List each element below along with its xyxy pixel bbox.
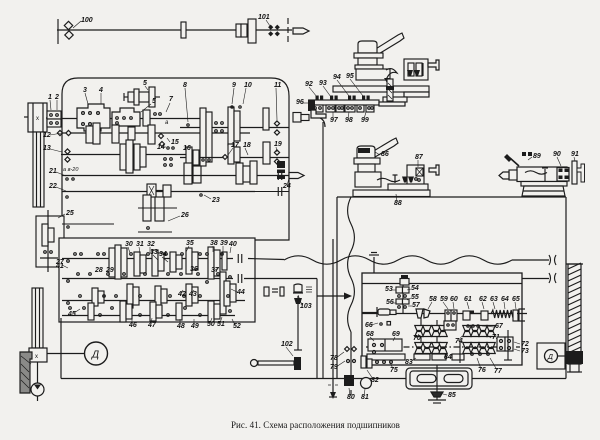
svg-text:57: 57 (412, 302, 421, 309)
worm pair row2 d (479, 343, 496, 354)
item 102 rod (251, 357, 302, 370)
text 18-20 (63, 167, 79, 173)
label 60 (450, 296, 458, 309)
feed gearbox housing (59, 238, 255, 322)
tailstock body (517, 167, 567, 182)
vertical shaft box 25 (36, 216, 64, 267)
svg-text:Д: Д (91, 350, 99, 361)
svg-text:63: 63 (490, 296, 498, 303)
sliding gear feed tall (220, 272, 231, 314)
svg-text:Рис. 41. Схема расположения по: Рис. 41. Схема расположения подшипников (231, 420, 400, 430)
black gear on shaft VI (277, 161, 285, 179)
svg-text:46: 46 (128, 322, 137, 329)
svg-text:51: 51 (217, 321, 225, 328)
label 40 (228, 241, 237, 253)
svg-text:77: 77 (494, 368, 503, 375)
coupling right upper (549, 255, 556, 265)
wire vertical 74 (459, 340, 461, 363)
svg-text:61: 61 (464, 296, 472, 303)
gear cluster feed G (88, 301, 220, 322)
tailstock clamp marks (522, 152, 532, 156)
wire handwheel vertical (436, 365, 438, 392)
worm pair row2 c (463, 343, 480, 354)
label 44 (231, 289, 245, 296)
gear 82 rects (361, 356, 372, 368)
tall gear cluster B (228, 107, 240, 145)
handwheel housing (406, 368, 472, 389)
tool post body lower (357, 146, 375, 158)
rack gear block d (345, 105, 355, 112)
svg-text:30: 30 (125, 241, 133, 248)
label 83 (405, 358, 416, 366)
bevel pair 58 (416, 309, 430, 318)
label 56 (386, 299, 396, 306)
gear cluster feed D (208, 247, 227, 279)
bevel gears upper (407, 70, 420, 76)
svg-text:Д: Д (547, 354, 553, 361)
bearing on top shaft (181, 22, 186, 38)
svg-text:15: 15 (171, 139, 179, 146)
svg-text:85: 85 (448, 392, 456, 399)
label 68 (366, 331, 374, 341)
feed arrow curl upper (384, 69, 397, 83)
label 102 (281, 341, 293, 356)
label 27 (55, 259, 68, 268)
svg-text:19: 19 (274, 141, 282, 148)
handwheel 80-81 (344, 375, 372, 395)
label 75 (390, 362, 398, 374)
apron main shaft (362, 313, 527, 315)
label 31 (136, 241, 144, 253)
label 33 (150, 249, 158, 260)
label 10 (231, 82, 252, 108)
label 88 (394, 194, 402, 207)
universal joint 101 (268, 25, 280, 37)
tailstock lock gears (557, 168, 569, 182)
svg-text:65: 65 (512, 296, 520, 303)
wire motor to pulley (37, 362, 39, 383)
motor pulley circle (31, 383, 44, 401)
label 3 (83, 87, 88, 104)
svg-text:70: 70 (413, 335, 421, 342)
apron rack bar (367, 354, 405, 360)
svg-text:2: 2 (54, 94, 59, 101)
label 65 (512, 296, 520, 309)
svg-text:79: 79 (330, 364, 338, 371)
label 43 (188, 290, 197, 298)
gearbox 68 (368, 339, 402, 354)
label 85 (443, 392, 456, 399)
shaft I spindle (61, 118, 212, 120)
svg-text:86: 86 (381, 151, 389, 158)
label 5a (143, 80, 148, 90)
svg-text:93: 93 (319, 80, 327, 87)
bearing 15 (159, 134, 165, 147)
label 84 (444, 354, 452, 361)
svg-text:88: 88 (394, 200, 402, 207)
label 66 (365, 322, 391, 330)
label 52 (232, 319, 241, 330)
small circles 67 (467, 323, 504, 330)
gear cluster feed B (134, 250, 164, 276)
wire feed rod stub (248, 259, 284, 260)
svg-text:8: 8 (183, 82, 187, 89)
wire pulley to spindle (46, 117, 48, 119)
label 50 (207, 318, 215, 328)
label 80 (347, 388, 355, 401)
wire stop rod (294, 296, 302, 350)
label 37 (211, 267, 220, 274)
motor circle D left (47, 342, 108, 365)
carriage bevel gears (402, 177, 417, 183)
tailstock spring wave (525, 168, 548, 181)
crank handle upper (428, 60, 439, 70)
svg-text:23: 23 (211, 197, 220, 204)
label 26 (168, 212, 189, 221)
cross slide screw block upper (404, 59, 428, 80)
label 4 (98, 87, 103, 104)
svg-text:18: 18 (243, 142, 251, 149)
stop symbol group (264, 287, 284, 296)
gear cluster mid lower (120, 140, 146, 173)
svg-text:97: 97 (330, 117, 339, 124)
gear cluster feed E (92, 284, 167, 308)
svg-text:58: 58 (429, 296, 437, 303)
label 100 (73, 17, 93, 28)
label 51 (217, 317, 225, 328)
label 19 (274, 141, 282, 152)
label 101 (258, 14, 270, 26)
label 14 (157, 144, 174, 151)
wire worm vertical b (436, 320, 438, 360)
crank handle lower (429, 165, 439, 175)
svg-text:32: 32 (147, 241, 155, 248)
svg-text:5: 5 (152, 98, 156, 105)
small gear on spindle end (143, 110, 161, 126)
label 71 (487, 334, 500, 341)
svg-text:12: 12 (43, 132, 51, 139)
motor bracket (20, 352, 32, 393)
label 24 (282, 178, 291, 190)
label 95 (346, 73, 363, 96)
label 93 (319, 80, 331, 97)
link tick symbol (369, 253, 379, 309)
label 12 (43, 132, 62, 139)
label 21 (48, 168, 74, 180)
leadscrew hatched bar (566, 263, 583, 372)
gear cluster feed A (109, 245, 127, 279)
svg-text:16: 16 (183, 145, 191, 152)
svg-text:x: x (36, 116, 39, 122)
gear 59-60 (445, 310, 457, 321)
cross slide platform upper (333, 86, 429, 97)
tailstock lever (504, 154, 519, 166)
svg-text:21: 21 (48, 168, 57, 175)
circles shaft III (164, 158, 173, 167)
tall gear cluster A (200, 108, 223, 166)
label 11 (274, 82, 281, 120)
item 85 bevel (428, 392, 446, 403)
svg-text:17: 17 (231, 142, 240, 149)
svg-text:90: 90 (553, 151, 561, 158)
label 54 (407, 285, 419, 292)
svg-text:87: 87 (415, 154, 424, 161)
gear cluster 23 (236, 161, 257, 184)
apron dash centerline (366, 346, 520, 348)
label 28 (94, 267, 103, 274)
svg-text:92: 92 (305, 81, 313, 88)
label 91 (571, 151, 579, 161)
svg-text:80: 80 (347, 394, 355, 401)
svg-text:42: 42 (177, 291, 186, 298)
label 2 (54, 94, 59, 110)
svg-text:33: 33 (150, 249, 158, 256)
svg-text:11: 11 (274, 82, 281, 89)
svg-text:75: 75 (390, 367, 398, 374)
svg-text:73: 73 (521, 348, 529, 355)
tool post lever lower (372, 138, 398, 157)
feed box bearing circles r1 (67, 253, 224, 263)
feed shaft 2 (62, 278, 233, 280)
label 13 (43, 145, 62, 152)
svg-text:13: 13 (43, 145, 51, 152)
svg-text:84: 84 (444, 354, 452, 361)
headstock gearbox housing (62, 78, 289, 240)
gear block 74 center (444, 321, 456, 330)
wire vertical from rack (322, 122, 324, 378)
svg-text:49: 49 (190, 323, 199, 330)
svg-text:10: 10 (244, 82, 252, 89)
label 86 (358, 148, 389, 158)
label 94 (333, 74, 349, 96)
label 87 (415, 154, 424, 167)
label 25 (58, 210, 74, 218)
svg-text:50: 50 (207, 321, 215, 328)
bearing 11 (274, 121, 279, 135)
svg-text:22: 22 (48, 183, 57, 190)
wire worm vertical a (420, 318, 422, 360)
gear stack 53-57 (396, 287, 409, 308)
svg-text:26: 26 (180, 212, 189, 219)
bearing 19 (274, 150, 279, 164)
label 22 (48, 183, 68, 198)
svg-text:95: 95 (346, 73, 354, 80)
bearing 13 (65, 149, 70, 162)
spring 62-65 (491, 310, 513, 318)
label 59 (440, 296, 448, 309)
svg-text:36: 36 (190, 266, 198, 273)
wavy horizontal link (284, 256, 549, 264)
rack gear block a (312, 105, 323, 112)
label 90 (553, 151, 561, 166)
shaft V (180, 157, 289, 159)
svg-text:3: 3 (83, 87, 87, 94)
worm pair 70a (415, 326, 432, 337)
svg-text:47: 47 (147, 322, 157, 329)
handwheel slot right (444, 375, 463, 383)
gear 78-79 diamonds (345, 347, 357, 363)
label 103 (298, 295, 312, 310)
tailstock base (521, 182, 567, 197)
wavy vertical shaft (348, 197, 355, 376)
gear cluster 3-4 on spindle (77, 104, 110, 131)
label 70 (413, 334, 421, 342)
shaft II (61, 132, 250, 134)
svg-text:100: 100 (81, 17, 93, 24)
svg-text:91: 91 (571, 151, 579, 158)
bearing block 1-2 (47, 111, 61, 127)
svg-text:38: 38 (210, 240, 218, 247)
svg-text:а в-20: а в-20 (63, 167, 79, 173)
label 64 (501, 296, 509, 309)
svg-text:78: 78 (330, 355, 338, 362)
label 78 (330, 352, 344, 362)
label 9 (232, 82, 236, 104)
svg-text:67: 67 (495, 323, 504, 330)
gear block 72-73 (497, 330, 513, 360)
gear cluster feed F (186, 281, 236, 306)
tool post lever upper (374, 33, 404, 55)
svg-text:55: 55 (411, 294, 419, 301)
svg-text:68: 68 (366, 331, 374, 338)
svg-text:31: 31 (136, 241, 144, 248)
tailstock quill (499, 170, 517, 180)
label 48 (176, 319, 185, 330)
svg-text:x: x (35, 354, 38, 360)
bearing bracket under rack (311, 110, 326, 127)
label 97 (330, 112, 339, 124)
label 32 (147, 241, 155, 253)
label 49 (190, 319, 199, 330)
svg-text:62: 62 (479, 296, 487, 303)
svg-text:64: 64 (501, 296, 509, 303)
label 61 (464, 296, 472, 309)
carriage saddle wave (377, 175, 400, 183)
label 57 (408, 302, 421, 309)
gear C (263, 108, 269, 130)
svg-text:81: 81 (361, 394, 369, 401)
svg-text:35: 35 (186, 240, 194, 247)
rack top ticks (316, 96, 370, 100)
rack gear block b (326, 105, 335, 112)
label 35 (186, 240, 194, 252)
coupling feed rod (238, 254, 242, 263)
label 38 (210, 240, 218, 252)
apron housing (362, 273, 522, 365)
svg-text:14: 14 (157, 144, 165, 151)
worm pair 74a (463, 326, 480, 337)
svg-text:98: 98 (345, 117, 353, 124)
label 46 (128, 318, 137, 329)
gears on shaft II (86, 123, 155, 144)
bearing 12 (57, 130, 71, 135)
label 63 (490, 296, 498, 309)
tool post plates upper (354, 53, 390, 80)
svg-text:28: 28 (94, 267, 103, 274)
item 103 symbol (293, 284, 312, 304)
label 30 (125, 241, 133, 253)
caption (231, 420, 400, 430)
svg-text:52: 52 (233, 323, 241, 330)
svg-text:76: 76 (478, 367, 486, 374)
gear cluster 5 top (124, 87, 160, 107)
svg-text:4: 4 (98, 87, 103, 94)
gears on shaft V (186, 142, 270, 167)
label 39 (220, 240, 228, 252)
coupling on shaft VII (278, 171, 282, 180)
svg-text:1: 1 (48, 94, 52, 101)
label 58 (428, 296, 437, 309)
wire vertical anchor line (332, 239, 334, 378)
worm pair 70b (432, 326, 448, 337)
label 45 (67, 309, 80, 318)
cross slide lower bar (383, 97, 407, 102)
coupling leadscrew (238, 274, 242, 283)
label 42 (177, 290, 186, 298)
svg-text:53: 53 (385, 286, 393, 293)
feed rack bar (309, 100, 405, 106)
label 36 (190, 266, 198, 273)
svg-text:83: 83 (405, 359, 413, 366)
svg-text:40: 40 (228, 241, 237, 248)
arrow 24 output (289, 173, 304, 179)
shaft collars 61 (463, 311, 488, 321)
gear cluster on shaft VIII (147, 184, 171, 197)
cross feed screw column (386, 79, 394, 101)
svg-text:66: 66 (365, 322, 373, 329)
carriage screw block (407, 165, 424, 187)
feed box bearing circles r2 (67, 273, 220, 284)
input shaft top bearing (400, 275, 409, 285)
wire short shaft y224 (62, 224, 114, 228)
svg-text:39: 39 (220, 240, 228, 247)
gear block on top shaft (236, 19, 256, 43)
label 15 (167, 138, 179, 146)
svg-text:101: 101 (258, 14, 270, 21)
label 77 (487, 353, 503, 375)
svg-text:56: 56 (386, 299, 394, 306)
svg-text:54: 54 (411, 285, 419, 292)
tool post plates lower (354, 158, 381, 187)
label 41 (55, 263, 64, 270)
wire top auxiliary shaft (57, 18, 292, 45)
label 1 (48, 94, 52, 110)
svg-text:96: 96 (296, 99, 304, 106)
label 29 (105, 267, 114, 274)
shaft VIII (62, 187, 289, 196)
label 73 (514, 348, 529, 355)
label 69 (392, 331, 400, 341)
feed box bearing circles r3 (67, 295, 230, 305)
svg-text:102: 102 (281, 341, 293, 348)
label 89 (528, 153, 541, 160)
rack gear block e (357, 105, 364, 112)
tool post body upper (358, 41, 377, 53)
vertical shaft in box 25 (40, 210, 58, 272)
label 18 (243, 142, 251, 155)
arrow end of top shaft (293, 28, 309, 34)
label 76 (471, 353, 486, 374)
label 74 (455, 336, 463, 345)
handwheel slot left (417, 375, 436, 383)
worm pair row2 b (432, 343, 448, 354)
svg-text:69: 69 (392, 331, 400, 338)
svg-text:34: 34 (159, 251, 167, 258)
shaft IV (180, 127, 289, 129)
shaft III (61, 154, 212, 156)
spring end block (513, 309, 525, 321)
drive pulley belt upper (24, 103, 47, 207)
